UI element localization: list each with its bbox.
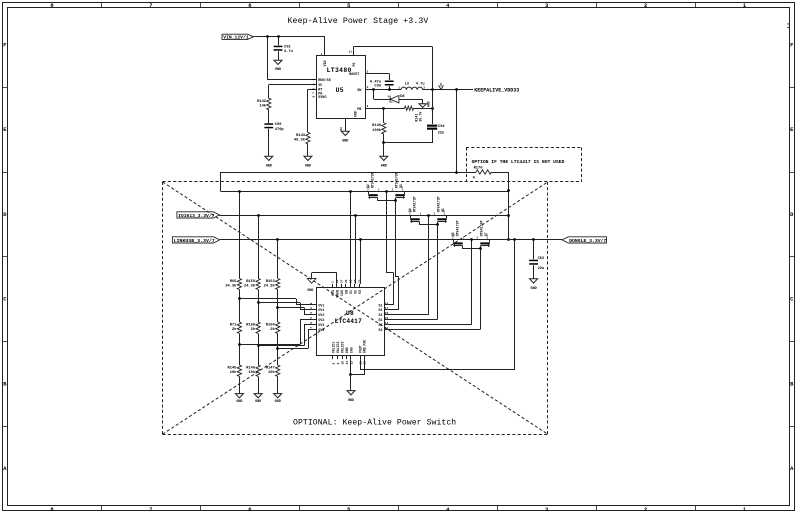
wire rail jog left (220, 172, 222, 191)
svg-text:GND_PAD: GND_PAD (363, 340, 367, 353)
svg-text:2k: 2k (232, 327, 237, 332)
flag IO1613_3.3V/7 (177, 212, 220, 218)
resistor R140 (383, 108, 385, 123)
svg-text:HYS: HYS (331, 290, 335, 296)
op-amp U5 LT3480 regulator (317, 56, 366, 119)
svg-text:10k: 10k (230, 370, 237, 375)
svg-text:L3: L3 (405, 83, 410, 87)
svg-text:1: 1 (743, 507, 746, 513)
wire chain R159 (258, 215, 260, 278)
svg-text:26: 26 (345, 279, 348, 283)
testpoint (439, 83, 444, 90)
transistor Q2 (368, 191, 370, 194)
svg-text:GND: GND (381, 164, 387, 168)
svg-text:U8: U8 (346, 310, 354, 317)
svg-text:NTS4173P: NTS4173P (412, 196, 416, 212)
transistor Q7 (489, 239, 491, 242)
capacitor C90 (264, 123, 273, 125)
dashed box OPTION IF THE LTC4417 IS NOT USED (466, 147, 582, 149)
transistor Q6 (453, 239, 455, 242)
ground C92 (274, 60, 282, 64)
svg-text:Q7: Q7 (484, 232, 488, 236)
svg-text:LT3480: LT3480 (327, 67, 352, 74)
svg-text:V3: V3 (358, 290, 362, 294)
svg-text:8: 8 (50, 3, 53, 9)
svg-text:10: 10 (341, 361, 344, 365)
ground C90 (265, 156, 273, 160)
wire rail B (219, 215, 508, 217)
wire gate bus Q2/Q3 (377, 200, 395, 202)
svg-text:1.1: 1.1 (787, 23, 790, 29)
svg-text:NTS4173P: NTS4173P (436, 196, 440, 212)
svg-text:10k: 10k (248, 370, 255, 375)
U8 left pins (313, 304, 317, 306)
svg-text:1: 1 (743, 3, 746, 9)
op-amp U8 LTC4417 (317, 288, 385, 356)
svg-text:R158: R158 (246, 323, 256, 327)
wire PG loop (353, 46, 432, 48)
svg-text:S1: S1 (379, 303, 383, 307)
flag LINKUSB_3.3V/7 (172, 237, 219, 243)
svg-text:22u: 22u (438, 131, 445, 135)
svg-text:Q6: Q6 (451, 232, 455, 236)
svg-text:CAS: CAS (350, 347, 354, 353)
wire chain R66 (239, 191, 241, 278)
svg-text:48.3k: 48.3k (294, 137, 306, 142)
svg-text:R147: R147 (266, 366, 275, 370)
wire Q6/Q7 gate to U8 (480, 249, 482, 330)
wire U8 gnd (350, 359, 352, 375)
svg-text:VALID2: VALID2 (336, 342, 340, 354)
dashed cross diagonal 2 (163, 182, 548, 434)
resistor R164 (276, 322, 280, 333)
transistor Q4 (410, 215, 412, 218)
resistor R147 (276, 365, 280, 376)
U8 bottom pins (332, 355, 334, 359)
wire KEEPALIVE rail (221, 172, 476, 174)
resistor R143 (306, 132, 310, 144)
U8 right pins (384, 304, 387, 306)
svg-text:6: 6 (248, 3, 251, 9)
svg-text:R66: R66 (230, 280, 237, 284)
wire Q4/Q5 source to U8 (428, 215, 430, 314)
svg-text:6: 6 (248, 507, 251, 513)
svg-text:Keep-Alive Power Stage +3.3V: Keep-Alive Power Stage +3.3V (288, 16, 429, 26)
wire Q2/Q3 source to U8 (386, 191, 388, 273)
svg-text:OPTIONAL: Keep-Alive Power Swi: OPTIONAL: Keep-Alive Power Switch (293, 418, 456, 427)
wire RT (308, 89, 317, 91)
svg-text:SHDN: SHDN (335, 290, 339, 298)
svg-text:F: F (790, 42, 793, 48)
svg-text:LINKUSB_3.3V/7: LINKUSB_3.3V/7 (174, 238, 215, 244)
wire U8 top gnd (336, 273, 338, 284)
svg-text:NTS4173P: NTS4173P (394, 172, 398, 188)
svg-text:R145: R145 (228, 366, 238, 370)
wire R170 down (508, 172, 510, 239)
wire Q4/Q5 gate to U8 (437, 225, 439, 320)
capacitor C92 (278, 37, 280, 45)
svg-text:R71: R71 (230, 323, 237, 327)
svg-text:R163: R163 (266, 280, 276, 284)
svg-text:R164: R164 (266, 323, 276, 327)
resistor R145 (237, 365, 241, 376)
capacitor C94 (427, 125, 437, 127)
ground chain R66 (235, 394, 243, 398)
ground C52 (530, 279, 538, 283)
svg-text:GND: GND (266, 164, 272, 168)
resistor R146 (256, 365, 260, 376)
svg-text:5: 5 (347, 507, 350, 513)
svg-text:NTS4173P: NTS4173P (479, 221, 483, 237)
svg-text:GND: GND (342, 139, 348, 143)
svg-text:S2: S2 (379, 313, 383, 317)
svg-text:LTC4417: LTC4417 (335, 318, 362, 325)
svg-text:2k: 2k (251, 327, 256, 332)
svg-text:V2: V2 (353, 290, 357, 294)
resistor R163 (276, 279, 280, 290)
svg-text:D8: D8 (400, 95, 405, 99)
svg-text:0: 0 (473, 176, 475, 180)
svg-text:VIN_12V/1: VIN_12V/1 (223, 34, 249, 40)
wire Q6/Q7 source to U8 (471, 239, 473, 324)
U8 top pins (332, 284, 334, 288)
svg-text:7: 7 (149, 507, 152, 513)
transistor Q3 (404, 191, 406, 194)
svg-text:100k: 100k (372, 128, 382, 133)
svg-text:F: F (3, 42, 6, 48)
svg-text:3: 3 (545, 507, 548, 513)
flag VIN_12V/1 (222, 34, 254, 39)
svg-text:R143: R143 (296, 134, 306, 138)
svg-text:2: 2 (644, 3, 647, 9)
svg-text:C90: C90 (275, 123, 282, 127)
svg-text:GND: GND (305, 164, 311, 168)
dashed box OPTIONAL keep-alive power switch (163, 181, 582, 183)
wire rail A sense (350, 191, 352, 284)
svg-text:GND: GND (255, 400, 261, 404)
resistor R66 (237, 279, 241, 290)
resistor R71 (237, 322, 241, 333)
svg-text:GND: GND (531, 287, 537, 291)
svg-text:DONGLE_3.3V/7: DONGLE_3.3V/7 (569, 238, 606, 244)
svg-text:S3: S3 (379, 323, 383, 327)
svg-text:IO1613_3.3V/7: IO1613_3.3V/7 (178, 213, 214, 219)
svg-text:SYNC: SYNC (318, 96, 326, 100)
svg-text:CAS: CAS (340, 290, 344, 296)
svg-text:C52: C52 (538, 257, 545, 261)
svg-text:2: 2 (644, 507, 647, 513)
wire VOUT (360, 359, 362, 370)
ground U8 top (307, 278, 316, 283)
ground D8 (419, 104, 426, 108)
svg-text:24.3k: 24.3k (244, 283, 256, 288)
wire rail A (221, 191, 509, 193)
resistor R142 (267, 98, 271, 110)
svg-text:3: 3 (545, 3, 548, 9)
svg-text:VALID3: VALID3 (341, 342, 345, 354)
svg-text:24.3k: 24.3k (225, 283, 237, 288)
capacitor C93 boost (389, 74, 391, 81)
ground R143 (304, 156, 312, 160)
wire chain R163 (277, 239, 279, 278)
wire rail B sense (355, 215, 357, 284)
svg-text:GND: GND (275, 68, 281, 72)
svg-text:C94: C94 (438, 125, 445, 129)
svg-text:470p: 470p (275, 128, 285, 132)
svg-text:BOOST: BOOST (349, 72, 359, 76)
svg-text:PG: PG (352, 63, 356, 67)
node VIN junction (266, 35, 269, 38)
wire rail C (220, 239, 563, 241)
svg-text:VIN: VIN (323, 61, 327, 67)
svg-text:Q5: Q5 (441, 208, 445, 212)
wire output down (432, 90, 434, 124)
node mid Q2/Q3 (385, 190, 388, 193)
svg-text:GND: GND (307, 288, 313, 292)
diode D8 (373, 90, 375, 99)
svg-text:OV1: OV1 (318, 308, 324, 312)
svg-text:Q4: Q4 (408, 208, 412, 212)
resistor R141 feedback (405, 106, 414, 110)
svg-text:R142: R142 (257, 100, 266, 104)
wire gate bus Q4/Q5 (419, 224, 437, 226)
svg-text:OV2: OV2 (318, 318, 324, 322)
svg-text:G1: G1 (379, 308, 383, 312)
svg-text:OV3: OV3 (318, 328, 324, 332)
svg-text:GND: GND (275, 400, 281, 404)
svg-text:C92: C92 (284, 46, 291, 50)
svg-text:5: 5 (347, 3, 350, 9)
svg-text:G3: G3 (379, 328, 383, 332)
ground U8 (347, 391, 355, 395)
svg-text:7: 7 (149, 3, 152, 9)
svg-text:Q2: Q2 (366, 184, 370, 188)
svg-text:UV3: UV3 (318, 323, 324, 327)
pin PG top (353, 47, 355, 56)
ground U5 (341, 131, 349, 135)
node mid Q4/Q5 (427, 214, 430, 217)
svg-text:EN: EN (344, 290, 348, 294)
svg-text:VC: VC (318, 84, 322, 88)
wire OV taps lower (239, 344, 300, 346)
svg-text:OPTION IF THE LTC4417 IS NOT U: OPTION IF THE LTC4417 IS NOT USED (472, 159, 565, 165)
ground chain R163 (274, 394, 282, 398)
svg-text:R146: R146 (246, 366, 255, 370)
wire Q2/Q3 gate to U8 (395, 201, 397, 277)
svg-text:C93: C93 (374, 85, 381, 89)
ground R140 (380, 156, 388, 160)
svg-text:27: 27 (341, 279, 344, 283)
svg-text:V1: V1 (349, 290, 353, 294)
svg-text:11: 11 (346, 361, 349, 365)
wire rail C sense (360, 239, 362, 284)
transistor Q5 (446, 215, 448, 218)
svg-text:22u: 22u (538, 267, 545, 271)
node mid Q6/Q7 (470, 238, 473, 241)
wire bottom FB (384, 142, 432, 144)
svg-text:R159: R159 (246, 280, 255, 284)
svg-text:8: 8 (332, 363, 335, 365)
svg-text:U5: U5 (336, 87, 344, 94)
svg-text:GND: GND (427, 101, 431, 107)
svg-text:GND: GND (236, 400, 242, 404)
wire L3 to output (423, 89, 473, 91)
svg-text:R170: R170 (474, 166, 483, 170)
svg-text:8: 8 (50, 507, 53, 513)
wire UV taps upper (239, 298, 296, 300)
resistor R159 (256, 279, 260, 290)
svg-text:VALID1: VALID1 (332, 342, 336, 354)
svg-text:R140: R140 (372, 124, 381, 128)
svg-text:24.3k: 24.3k (264, 283, 276, 288)
wire VC (269, 84, 317, 86)
svg-text:11: 11 (349, 50, 353, 53)
wire RUN/SS (267, 37, 269, 80)
wire keepalive to rail (456, 90, 458, 172)
svg-text:G2: G2 (379, 318, 383, 322)
dashed cross diagonal 1 (163, 182, 548, 434)
svg-text:NTS4173P: NTS4173P (455, 221, 459, 237)
ground chain R159 (254, 394, 262, 398)
wire gate bus Q6/Q7 (462, 248, 480, 250)
resistor R170 bypass (476, 170, 492, 174)
svg-text:UV2: UV2 (318, 313, 324, 317)
wire SW node (365, 89, 401, 91)
svg-text:GND: GND (348, 399, 354, 403)
svg-text:DA: DA (340, 127, 343, 131)
svg-text:10k: 10k (268, 370, 275, 375)
flag DONGLE_3.3V/7 (562, 237, 606, 243)
svg-text:NTS4173P: NTS4173P (370, 172, 374, 188)
svg-text:GND: GND (353, 111, 357, 117)
svg-text:GND: GND (345, 347, 349, 353)
svg-text:UV1: UV1 (318, 303, 324, 307)
svg-text:35.7k: 35.7k (418, 112, 422, 122)
capacitor C52 (533, 239, 535, 259)
svg-text:RUN/SS: RUN/SS (318, 78, 331, 83)
resistor R158 (256, 322, 260, 333)
svg-text:2k: 2k (270, 327, 275, 332)
svg-text:4.7u: 4.7u (284, 50, 293, 54)
svg-text:Q3: Q3 (399, 184, 403, 188)
svg-text:KEEPALIVE_VDD33: KEEPALIVE_VDD33 (474, 88, 519, 94)
svg-text:9: 9 (337, 363, 340, 365)
svg-text:14k: 14k (259, 103, 266, 108)
wire VIN to U5 (254, 36, 326, 38)
wire FB node (365, 108, 404, 110)
inductor L3 (401, 87, 423, 90)
